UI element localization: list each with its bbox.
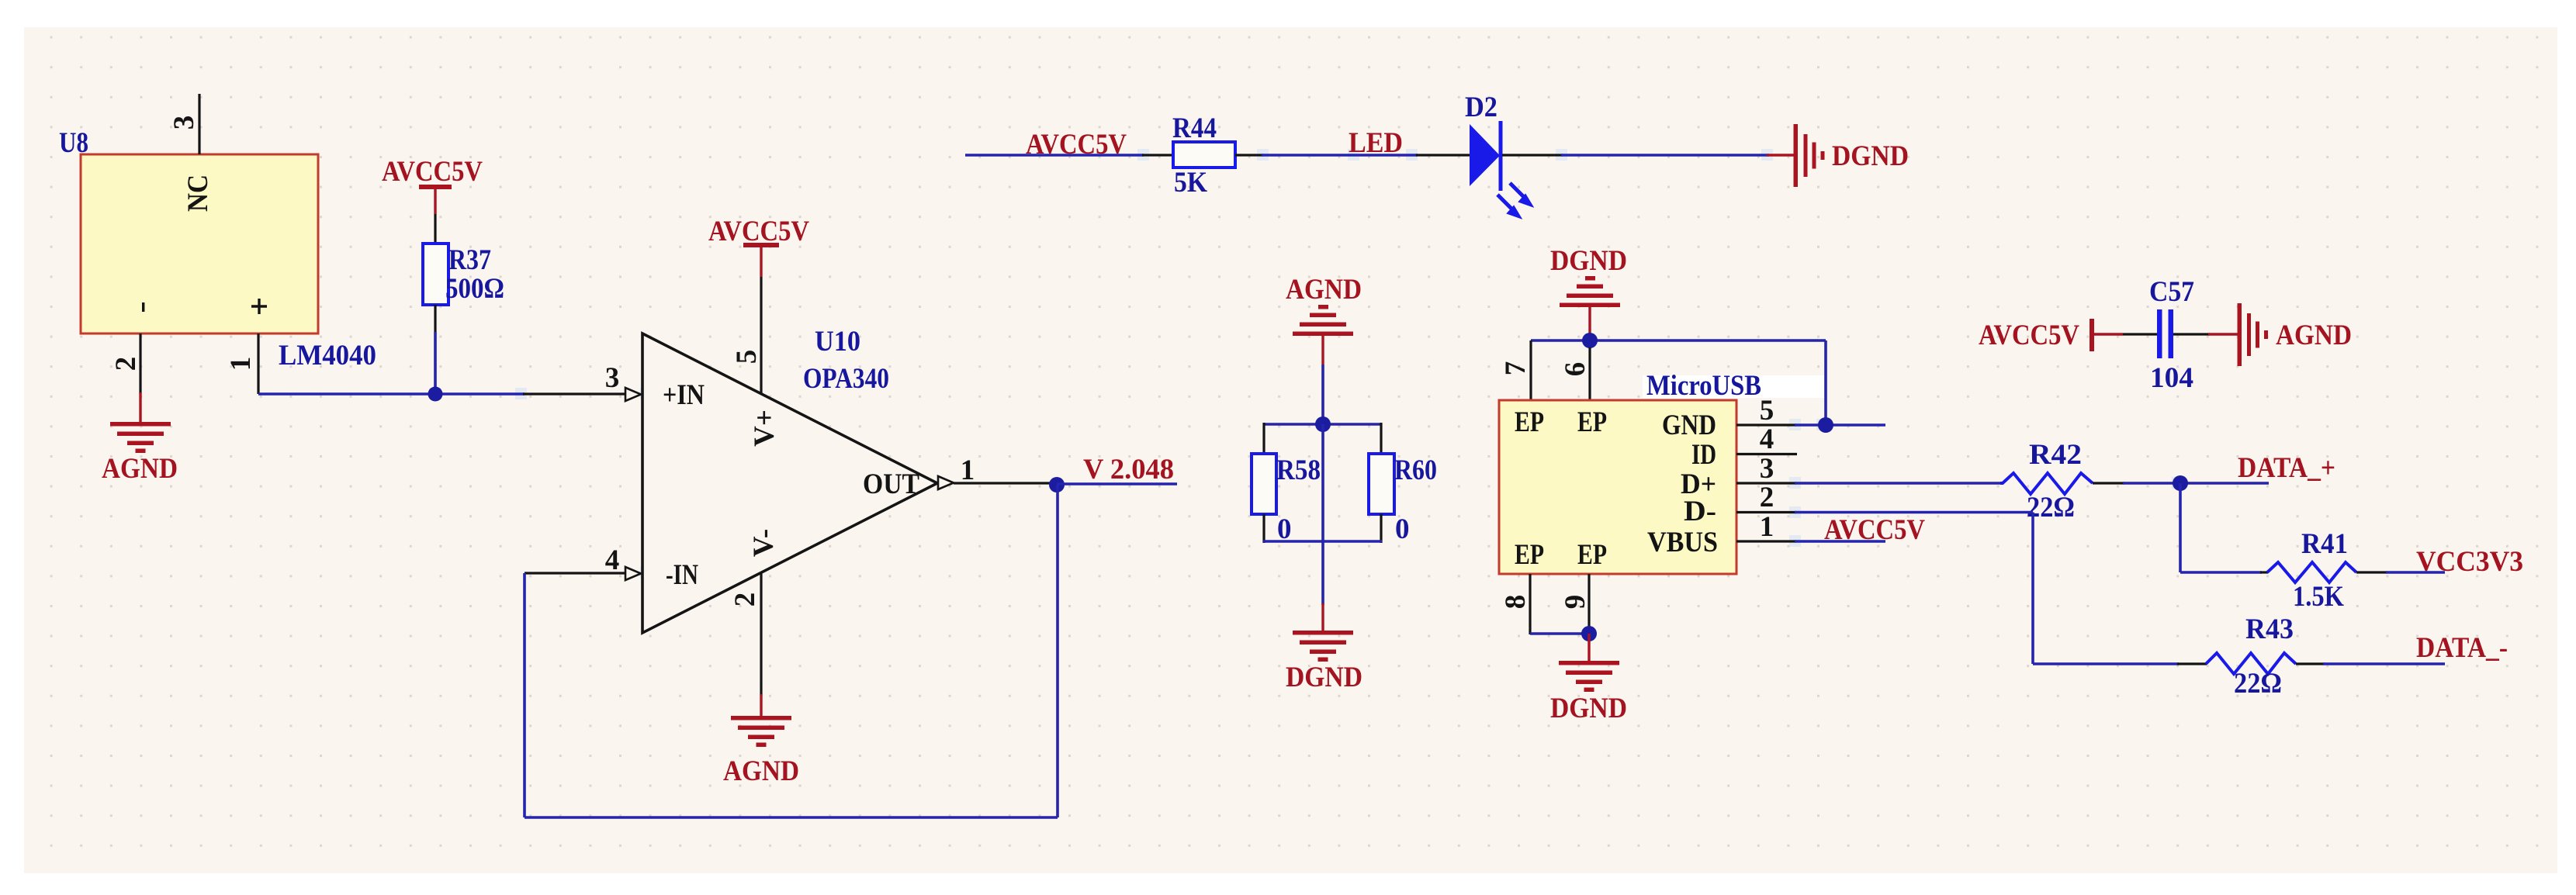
component MicroUSB body [1499,400,1736,574]
svg-text:AVCC5V: AVCC5V [708,216,809,247]
pin lead R43 right [2296,662,2325,665]
svg-text:U10: U10 [815,326,860,358]
ground DGND (below R58) [1293,631,1353,662]
wire to R41 left [2180,571,2262,574]
wire U8 pin1 to op-amp [258,392,525,396]
wire pin1 stub [1795,540,1885,543]
resistor R60 [1369,454,1394,514]
svg-text:R41: R41 [2301,528,2348,560]
svg-text:8: 8 [1500,595,1532,610]
junction node pin5 [1818,417,1833,433]
svg-text:R60: R60 [1394,454,1437,486]
svg-text:104: 104 [2150,362,2193,394]
pin lead R42 right [2093,482,2124,484]
svg-text:1.5K: 1.5K [2293,581,2344,613]
pin 2 of U8 [139,333,141,394]
svg-text:V 2.048: V 2.048 [1083,454,1174,486]
pin lead D2 right [1502,154,1563,156]
svg-text:R58: R58 [1276,454,1321,486]
svg-text:EP: EP [1515,539,1544,571]
pin 1 of U8 [257,333,259,394]
ground AGND bar-style (C57) [2238,303,2269,366]
ground lead DGND (LED row) [1767,154,1795,156]
svg-text:3: 3 [605,362,620,394]
wire feedback bottom [525,816,1058,819]
LED D2 cathode bar [1499,121,1503,191]
svg-text:DATA_+: DATA_+ [2238,452,2335,484]
svg-text:DGND: DGND [1832,140,1909,172]
ground lead AGND (U8 pin2) [139,392,141,425]
white backing MicroUSB label [1643,375,1824,398]
svg-text:9: 9 [1560,595,1591,610]
LED D2 triangle [1470,124,1500,186]
wire R43 to DATA_- [2323,662,2445,665]
wire R58 bottom rail [1263,540,1382,543]
svg-text:DGND: DGND [1550,693,1627,724]
svg-text:AGND: AGND [2276,320,2352,351]
pin name plus [251,299,267,314]
junction node pin9 [1581,626,1597,641]
svg-text:22Ω: 22Ω [2234,668,2282,700]
power port AVCC5V (R37) lead [434,189,436,214]
svg-text:VBUS: VBUS [1647,527,1718,558]
svg-text:D-: D- [1684,496,1716,527]
svg-text:3: 3 [168,116,200,130]
pin lead C57 left [2123,333,2158,335]
ground DGND bar-style (LED row) [1794,124,1825,187]
junction node output [1049,477,1065,492]
wire pin5 stub [1795,423,1885,427]
ground AGND (U10) [731,716,791,747]
resistor R43 zigzag [2206,653,2296,674]
pin lead R60 top [1380,423,1382,454]
pin 8 of MicroUSB [1529,574,1531,634]
svg-text:6: 6 [1560,362,1591,377]
wire AVCC5V to R44 [965,154,1144,157]
svg-text:4: 4 [1760,423,1774,455]
resistor R44 [1173,142,1235,168]
svg-text:1: 1 [225,357,257,371]
pin 9 of MicroUSB [1587,574,1590,634]
svg-text:2: 2 [729,593,761,607]
pin lead R44 left [1142,154,1174,156]
pin 3 of U8 [198,94,200,154]
resistor R58 [1252,454,1276,514]
power port AVCC5V (C57) bar [2090,319,2094,351]
svg-text:500Ω: 500Ω [445,273,504,305]
ground lead AGND (above R58) [1321,336,1324,365]
svg-text:V+: V+ [749,409,781,447]
power port AVCC5V (C57) lead [2094,333,2123,335]
wire AGND to node (R58 top) [1321,365,1324,424]
svg-text:1: 1 [1760,511,1774,543]
wire top rail down to pin5 [1824,340,1827,425]
pin 4 arrow of U10 [625,567,641,580]
svg-text:5: 5 [731,350,763,365]
svg-text:1: 1 [961,454,975,486]
svg-text:R37: R37 [448,244,491,276]
svg-text:+IN: +IN [663,379,705,411]
wire D2 to DGND [1561,154,1769,157]
svg-text:AVCC5V: AVCC5V [1026,129,1127,161]
svg-text:AVCC5V: AVCC5V [1979,320,2079,351]
svg-text:DGND: DGND [1286,662,1362,693]
pin lead R44 right [1235,154,1263,156]
svg-text:5: 5 [1760,395,1774,427]
wire pin3 to R42 [1795,482,2002,485]
component U8 LM4040 body [81,154,318,333]
svg-text:-IN: -IN [666,559,698,591]
svg-text:0: 0 [1395,513,1410,545]
ground lead AGND (C57) [2208,333,2239,335]
power port AVCC5V (R37) bar [419,185,452,189]
wire R37 to node [434,332,437,394]
pin lead R41 right [2356,571,2387,573]
pin lead R37 top [434,214,436,245]
wire end hint marks [429,149,2183,579]
svg-text:AGND: AGND [102,453,178,485]
junction node DATA_+ [2173,475,2188,491]
svg-text:2: 2 [110,357,142,371]
svg-text:V-: V- [748,529,780,557]
pin 7 of MicroUSB [1529,340,1532,400]
svg-text:R43: R43 [2245,613,2294,645]
svg-text:OPA340: OPA340 [803,363,889,395]
svg-text:DGND: DGND [1550,245,1627,277]
ground lead DGND (below R58) [1321,603,1324,634]
wire to R43 left [2033,662,2179,665]
wire R44 to D2 [1262,154,1418,157]
pin 3 lead of U10 [523,392,625,395]
LED D2 emission arrow 2 [1497,195,1521,218]
svg-text:ID: ID [1691,439,1716,471]
svg-text:EP: EP [1577,406,1607,438]
junction node R58 top [1315,416,1331,432]
junction node top rail [1582,333,1598,348]
pin 4 of MicroUSB [1736,453,1797,455]
svg-text:R44: R44 [1172,112,1217,144]
ground AGND inverted (above R58) [1293,305,1353,336]
pin lead R43 left [2177,662,2207,665]
wire output stub [1057,482,1177,486]
svg-text:5K: 5K [1174,167,1207,199]
wire MicroUSB top rail [1531,339,1826,342]
resistor R37 [423,244,448,305]
wire corner down (pin2 net) [2031,513,2034,665]
svg-text:VCC3V3: VCC3V3 [2416,546,2523,578]
svg-text:AGND: AGND [1286,274,1362,306]
ground lead DGND (above MicroUSB) [1588,307,1591,341]
pin 1 lead of U10 output [954,482,1051,484]
pin 2 of MicroUSB [1736,511,1796,513]
pin name minus [142,302,144,312]
svg-text:NC: NC [182,175,214,212]
resistor R41 zigzag [2267,562,2356,582]
capacitor C57 plate right [2169,309,2174,358]
pin lead C57 right [2173,333,2210,335]
svg-text:U8: U8 [59,127,88,159]
svg-text:7: 7 [1500,361,1532,376]
LED D2 emission arrow 1 [1510,183,1532,206]
wire feedback vertical right [1056,485,1059,817]
svg-text:3: 3 [1760,453,1774,485]
svg-text:DATA_-: DATA_- [2416,632,2508,664]
wire R41 to VCC3V3 [2386,571,2445,574]
pin lead R58 top [1262,423,1265,454]
resistor R42 zigzag [2000,473,2093,494]
wire R58 top rail [1263,423,1382,426]
wire pin2 to corner [1795,511,2033,514]
power port AVCC5V (U10) lead [760,247,762,277]
ground DGND (below MicroUSB) [1559,661,1619,692]
pin lead R41 left [2260,571,2268,573]
pin 4 lead of U10 [525,572,625,574]
svg-text:MicroUSB: MicroUSB [1646,370,1761,402]
junction node R37 [428,387,443,402]
op-amp U10 triangle [642,333,937,633]
svg-text:EP: EP [1515,406,1544,438]
ground lead AGND (U10) [760,694,762,719]
wire R58 center column [1321,424,1324,605]
svg-text:AGND: AGND [723,755,799,787]
pin lead D2 left [1416,154,1470,156]
pin 2 lead of U10 [760,572,762,696]
svg-text:2: 2 [1760,482,1774,513]
wire feedback vertical left [523,573,526,817]
svg-text:AVCC5V: AVCC5V [382,156,483,188]
svg-text:GND: GND [1662,409,1716,441]
pin 3 arrow of U10 [625,388,641,401]
wire pin8 to pin9 [1530,632,1589,635]
pin 5 of MicroUSB [1736,423,1796,426]
svg-text:R42: R42 [2029,439,2082,471]
pin 5 lead of U10 [760,277,762,394]
pin lead R37 bottom [434,305,436,332]
pin 3 of MicroUSB [1736,482,1796,484]
pin 6 of MicroUSB [1588,347,1591,400]
ground DGND inverted (above MicroUSB) [1560,276,1620,307]
svg-text:4: 4 [605,544,620,576]
wire junction down to R41 [2179,483,2182,572]
svg-text:EP: EP [1577,539,1607,571]
ground lead DGND (below MicroUSB) [1587,634,1590,664]
capacitor C57 plate left [2157,309,2162,358]
svg-text:LED: LED [1349,127,1403,159]
pin lead R58 bottom [1262,514,1265,543]
wire R42 to DATA_+ [2123,482,2269,485]
pin lead R60 bottom [1380,514,1382,543]
svg-text:AVCC5V: AVCC5V [1824,514,1925,546]
pin 1 arrow of U10 output [938,476,954,489]
svg-text:C57: C57 [2149,276,2194,308]
svg-text:LM4040: LM4040 [279,340,376,371]
svg-text:OUT: OUT [863,468,919,500]
power port AVCC5V (U10) bar [743,243,779,247]
ground AGND (U8) [110,422,171,453]
pin 1 of MicroUSB [1736,540,1796,542]
svg-text:D2: D2 [1465,92,1497,123]
